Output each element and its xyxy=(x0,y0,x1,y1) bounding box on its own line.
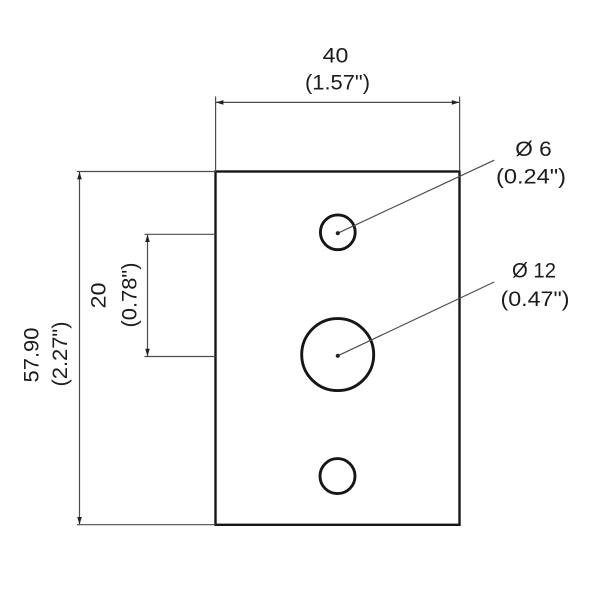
svg-text:57.90: 57.90 xyxy=(21,328,44,383)
arrowhead spacing bottom xyxy=(145,349,150,357)
svg-text:Ø 6: Ø 6 xyxy=(515,138,552,161)
extension line height dim top xyxy=(77,171,216,173)
extension line width dim right xyxy=(459,97,461,172)
leader dot hole Ø12 xyxy=(336,354,340,358)
arrowhead height top xyxy=(77,172,82,180)
arrowhead height bottom xyxy=(77,517,82,525)
dimension line width 40 xyxy=(216,101,459,103)
svg-text:20: 20 xyxy=(87,283,110,309)
svg-text:40: 40 xyxy=(323,45,349,68)
extension line hole spacing bottom xyxy=(145,356,216,358)
plate outline xyxy=(216,172,460,525)
svg-text:(1.57"): (1.57") xyxy=(305,72,370,95)
leader line hole Ø12 xyxy=(338,282,494,356)
arrowhead width left xyxy=(216,100,224,105)
leader line hole Ø6 xyxy=(338,160,494,233)
dimension line hole spacing 20 xyxy=(147,235,149,357)
svg-text:(0.24"): (0.24") xyxy=(496,166,566,189)
svg-text:(0.78"): (0.78") xyxy=(118,263,141,328)
arrowhead width right xyxy=(452,100,460,105)
hole H3 Ø6 bottom xyxy=(320,459,355,494)
extension line height dim bottom xyxy=(77,524,216,526)
extension line width dim left xyxy=(215,97,217,172)
svg-text:(0.47"): (0.47") xyxy=(501,288,570,311)
extension line hole spacing top xyxy=(145,233,216,235)
leader dot hole Ø6 xyxy=(336,231,340,235)
hole H2 Ø12 middle xyxy=(302,319,374,391)
arrowhead spacing top xyxy=(145,235,150,243)
svg-text:Ø 12: Ø 12 xyxy=(512,260,556,283)
svg-text:(2.27"): (2.27") xyxy=(49,322,72,387)
hole H1 Ø6 top xyxy=(320,215,355,250)
dimension line height 57.90 xyxy=(79,172,81,524)
